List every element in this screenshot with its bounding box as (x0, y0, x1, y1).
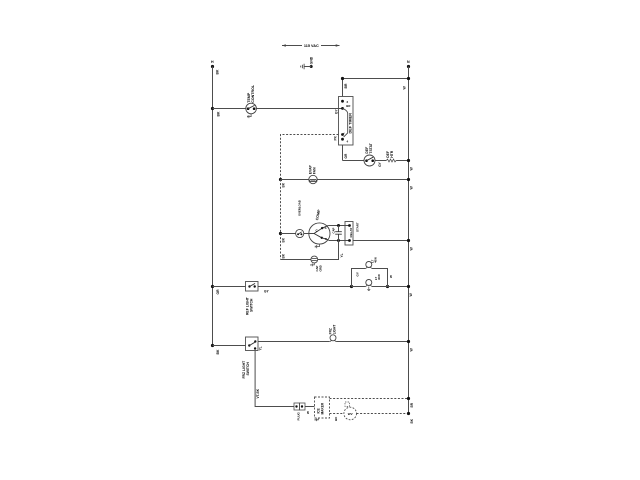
wire overload to compressor (304, 233, 309, 235)
svg-text:W: W (389, 275, 393, 278)
wire run cap ground loop (281, 241, 344, 260)
freezer lamp (329, 325, 337, 342)
svg-text:VT-BK: VT-BK (256, 388, 260, 398)
node on H rail at ref light row (211, 285, 220, 295)
node N (407, 60, 410, 68)
svg-text:TSTAT: TSTAT (369, 142, 373, 153)
wire pin4 to defrost thermostat (343, 160, 365, 162)
case ground capacitor (311, 256, 323, 271)
wire plug to ice maker (305, 406, 315, 408)
defrost timer DEF TIMER (339, 97, 354, 146)
svg-text:LIGHT: LIGHT (333, 325, 337, 335)
wire water valve to N rail dashed (357, 412, 414, 424)
evaporator fan motor (309, 164, 318, 183)
wire evap fan row (279, 178, 413, 190)
svg-text:GY: GY (335, 109, 339, 114)
run capacitor (332, 226, 342, 241)
ice maker (315, 397, 330, 421)
svg-text:RELAY: RELAY (349, 228, 353, 238)
refrigerator lamp 2 (352, 286, 388, 288)
svg-text:W: W (409, 348, 413, 352)
wire defrost timer pin 4 down (343, 145, 348, 161)
svg-text:SWITCH: SWITCH (246, 362, 250, 376)
svg-text:40W: 40W (374, 257, 378, 263)
freezer light switch (242, 337, 263, 379)
defrost heater DEF HTR (386, 150, 396, 162)
wire relay to N rail (353, 239, 413, 251)
svg-text:WV: WV (348, 412, 353, 416)
svg-text:BK: BK (282, 237, 286, 242)
refrigerator lamps parallel block (350, 257, 393, 291)
svg-text:CONTROL: CONTROL (251, 84, 255, 103)
connector plug (294, 403, 310, 421)
svg-text:HTR: HTR (390, 150, 394, 158)
svg-text:START: START (356, 222, 360, 232)
svg-text:BR: BR (346, 104, 350, 108)
svg-text:W: W (409, 186, 413, 190)
svg-text:4: 4 (347, 139, 349, 143)
node on H rail at temp control row (211, 107, 221, 117)
wire H rail to temp control (213, 108, 246, 110)
svg-text:W: W (409, 247, 413, 251)
wire dashed down to compressor branch (279, 180, 286, 260)
svg-text:BK: BK (334, 416, 338, 421)
water valve (344, 402, 357, 420)
svg-text:FAN: FAN (313, 167, 317, 174)
node H (211, 60, 220, 74)
PTC start relay (345, 222, 360, 246)
wire lamps to N rail (388, 285, 414, 297)
ground GND (301, 56, 314, 69)
svg-text:OR: OR (344, 153, 348, 158)
wire frz switch to frz lamp (258, 341, 330, 343)
svg-text:N: N (407, 60, 410, 64)
svg-text:MAKER: MAKER (321, 402, 325, 414)
svg-text:40W: 40W (377, 274, 381, 280)
wire frz lamp to N rail (336, 340, 413, 352)
svg-text:SWITCH: SWITCH (250, 298, 254, 312)
svg-text:OR: OR (216, 289, 220, 295)
wire right rail N (408, 67, 410, 415)
svg-text:BK: BK (282, 182, 286, 187)
svg-text:BK: BK (217, 111, 221, 116)
wire switch to lamps (258, 286, 352, 288)
wire ice maker top to N rail dashed (330, 397, 414, 408)
svg-text:BR: BR (410, 402, 414, 407)
wire to overload (281, 233, 296, 235)
svg-text:GY: GY (264, 290, 269, 294)
svg-text:DEF TIMER: DEF TIMER (349, 113, 353, 134)
115 VAC dimension line (282, 44, 340, 48)
wire left rail H (212, 67, 214, 346)
wire defrost thermostat to heater (375, 160, 386, 162)
wire N rail to defrost timer pin 2 (341, 77, 410, 97)
svg-text:W: W (402, 86, 406, 90)
svg-text:YL: YL (340, 253, 344, 257)
wire compressor R to relay (329, 239, 350, 242)
refrigerator light switch (246, 282, 270, 316)
wire frz switch lower contact down to ice maker row (255, 351, 294, 407)
svg-text:BK: BK (216, 349, 220, 354)
svg-text:BR: BR (344, 83, 348, 88)
svg-text:YL: YL (259, 346, 263, 350)
svg-text:115 VAC: 115 VAC (304, 44, 319, 48)
defrost thermostat (364, 142, 382, 167)
wire ref light row from H rail (213, 286, 246, 288)
wire temp control to defrost timer pin 1 (256, 108, 342, 110)
svg-text:W: W (409, 293, 413, 297)
svg-text:OVERLOAD: OVERLOAD (298, 200, 302, 216)
svg-text:GRD: GRD (318, 265, 322, 271)
svg-text:GND: GND (310, 56, 314, 64)
refrigerator lamp 1 (366, 262, 372, 268)
temp control thermostat (246, 84, 257, 118)
compressor motor COMP (309, 209, 330, 248)
wire heater to N rail (396, 159, 413, 171)
wire ice maker to water valve dashed (330, 414, 344, 422)
svg-text:BK: BK (216, 69, 220, 74)
svg-text:PK: PK (334, 135, 338, 140)
svg-text:GY: GY (378, 161, 382, 166)
node on H rail at frz light row (211, 344, 220, 355)
overload protector (296, 200, 304, 237)
svg-text:PLUG: PLUG (297, 412, 301, 421)
svg-text:GY: GY (355, 272, 359, 276)
svg-text:H: H (211, 60, 214, 64)
svg-text:W: W (306, 411, 310, 414)
svg-text:BK: BK (282, 253, 286, 258)
svg-text:W: W (409, 167, 413, 171)
svg-text:CAP: CAP (332, 227, 336, 233)
wire dashed defrost timer pin 3 to evap fan branch (281, 135, 339, 180)
svg-text:BK: BK (410, 418, 414, 423)
wire frz light row from H rail (213, 345, 246, 347)
svg-text:COMP: COMP (315, 209, 321, 221)
wire compressor S to relay (328, 224, 349, 227)
